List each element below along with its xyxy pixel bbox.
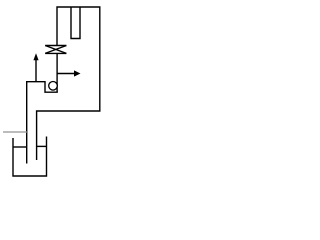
valve K1 (stopcock on vessel left wall) (45, 46, 66, 54)
pipe P1 (vertical pipe below valve down to float box) (56, 53, 58, 92)
liquid level line (right segment) (37, 145, 47, 147)
float ball C1 (circle in box) (49, 82, 58, 91)
liquid level line (left segment) (13, 146, 27, 148)
vessel V1 (large open tank, top-right) (37, 7, 100, 160)
feed line L1 with float box B1 (left wall and bottom) (27, 82, 58, 164)
beaker BK1 (open container bottom-left) (13, 137, 47, 177)
leader line (gray, points to tube A) (3, 131, 27, 133)
arrow A2 (flow arrow pointing up) (35, 60, 37, 82)
arrow A1 (flow arrow pointing right) (57, 73, 74, 75)
inner tube T1 (small rectangle hanging from vessel top) (71, 7, 80, 39)
